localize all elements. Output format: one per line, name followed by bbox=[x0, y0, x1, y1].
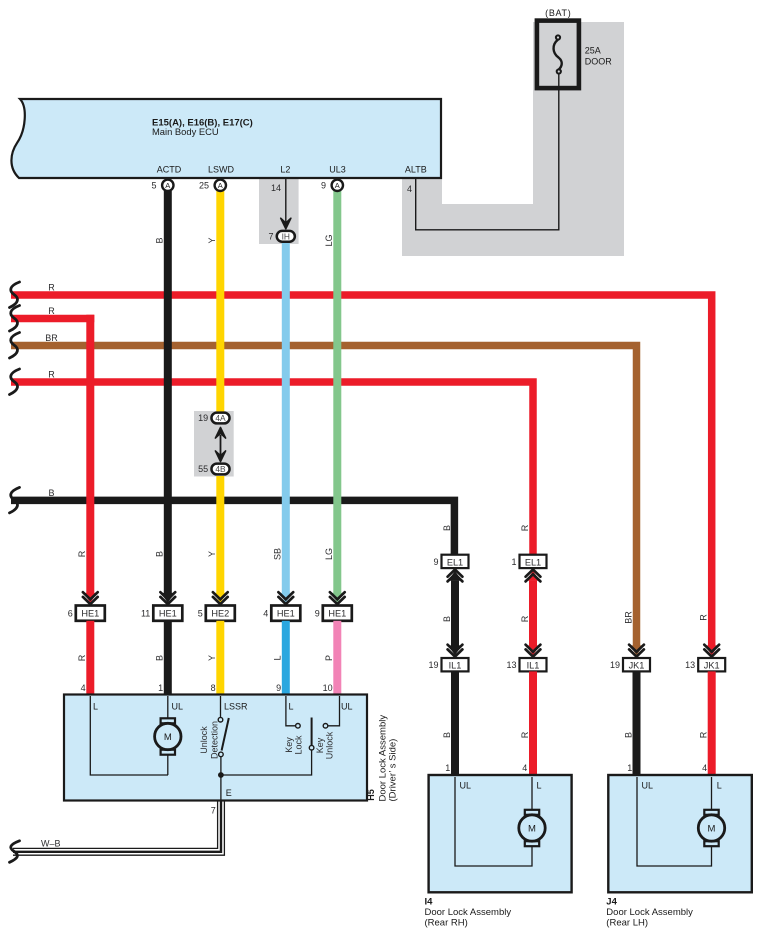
svg-text:9: 9 bbox=[433, 557, 438, 567]
svg-text:E: E bbox=[226, 788, 232, 798]
svg-text:ALTB: ALTB bbox=[405, 165, 427, 175]
svg-text:R: R bbox=[699, 731, 709, 738]
svg-text:4: 4 bbox=[263, 609, 268, 619]
svg-text:Y: Y bbox=[207, 551, 217, 557]
svg-text:UL3: UL3 bbox=[329, 165, 346, 175]
svg-text:J4: J4 bbox=[606, 897, 617, 908]
svg-text:L: L bbox=[289, 702, 294, 712]
svg-text:IH: IH bbox=[282, 231, 290, 241]
svg-text:9: 9 bbox=[276, 683, 281, 693]
svg-text:4: 4 bbox=[407, 184, 412, 194]
svg-text:1: 1 bbox=[627, 763, 632, 773]
svg-text:DOOR: DOOR bbox=[585, 56, 613, 66]
svg-text:19: 19 bbox=[428, 660, 438, 670]
svg-text:L: L bbox=[537, 781, 542, 791]
svg-text:M: M bbox=[164, 732, 172, 743]
svg-text:UL: UL bbox=[172, 702, 184, 712]
svg-text:4: 4 bbox=[81, 683, 86, 693]
svg-text:LG: LG bbox=[324, 234, 334, 246]
svg-text:25: 25 bbox=[199, 181, 209, 191]
svg-text:R: R bbox=[77, 550, 87, 557]
svg-text:B: B bbox=[442, 525, 452, 531]
svg-text:UL: UL bbox=[460, 781, 472, 791]
svg-text:10: 10 bbox=[323, 683, 333, 693]
svg-text:4: 4 bbox=[522, 763, 527, 773]
svg-text:13: 13 bbox=[685, 660, 695, 670]
svg-text:55: 55 bbox=[198, 464, 208, 474]
svg-text:8: 8 bbox=[211, 683, 216, 693]
svg-text:Door Lock Assembly: Door Lock Assembly bbox=[606, 907, 693, 918]
svg-text:R: R bbox=[520, 615, 530, 622]
svg-text:R: R bbox=[699, 614, 709, 621]
svg-text:B: B bbox=[155, 655, 165, 661]
svg-text:9: 9 bbox=[321, 181, 326, 191]
svg-text:M: M bbox=[708, 823, 716, 834]
svg-text:(Driver’ s Side): (Driver’ s Side) bbox=[388, 739, 399, 802]
svg-text:14: 14 bbox=[271, 183, 281, 193]
svg-text:B: B bbox=[155, 237, 165, 243]
svg-text:HE2: HE2 bbox=[211, 609, 229, 619]
svg-text:1: 1 bbox=[158, 683, 163, 693]
svg-text:Y: Y bbox=[207, 237, 217, 243]
svg-text:HE1: HE1 bbox=[81, 609, 99, 619]
svg-text:JK1: JK1 bbox=[629, 661, 645, 671]
svg-text:Key: Key bbox=[284, 737, 294, 753]
svg-text:R: R bbox=[48, 283, 55, 293]
svg-text:1: 1 bbox=[511, 557, 516, 567]
svg-text:5: 5 bbox=[198, 609, 203, 619]
svg-text:LG: LG bbox=[324, 548, 334, 560]
svg-text:HE1: HE1 bbox=[159, 609, 177, 619]
svg-text:A: A bbox=[218, 181, 223, 190]
svg-text:HE1: HE1 bbox=[277, 609, 295, 619]
svg-text:A: A bbox=[165, 181, 170, 190]
svg-text:B: B bbox=[442, 616, 452, 622]
svg-text:9: 9 bbox=[315, 609, 320, 619]
svg-text:25A: 25A bbox=[585, 45, 601, 55]
svg-text:6: 6 bbox=[68, 609, 73, 619]
svg-text:Y: Y bbox=[207, 655, 217, 661]
svg-text:R: R bbox=[520, 524, 530, 531]
svg-text:(Rear RH): (Rear RH) bbox=[425, 918, 468, 929]
svg-text:Key: Key bbox=[315, 737, 325, 753]
svg-text:4B: 4B bbox=[215, 464, 226, 474]
svg-text:(Rear LH): (Rear LH) bbox=[606, 918, 648, 929]
svg-text:7: 7 bbox=[268, 232, 273, 242]
svg-text:HE1: HE1 bbox=[328, 609, 346, 619]
svg-text:7: 7 bbox=[211, 806, 216, 816]
svg-text:P: P bbox=[324, 655, 334, 661]
svg-text:W–B: W–B bbox=[41, 839, 61, 849]
svg-text:(BAT): (BAT) bbox=[545, 8, 571, 18]
svg-text:L: L bbox=[273, 655, 283, 660]
svg-text:I4: I4 bbox=[425, 897, 434, 908]
svg-text:19: 19 bbox=[198, 413, 208, 423]
svg-text:IL1: IL1 bbox=[449, 661, 462, 671]
svg-text:M: M bbox=[528, 823, 536, 834]
svg-text:R: R bbox=[77, 654, 87, 661]
svg-text:UL: UL bbox=[642, 781, 654, 791]
svg-text:19: 19 bbox=[610, 660, 620, 670]
svg-text:13: 13 bbox=[506, 660, 516, 670]
svg-text:EL1: EL1 bbox=[525, 557, 541, 567]
svg-text:BR: BR bbox=[623, 611, 633, 624]
svg-text:SB: SB bbox=[273, 548, 283, 560]
svg-text:Door Lock Assembly: Door Lock Assembly bbox=[425, 907, 512, 918]
svg-text:H5: H5 bbox=[366, 789, 376, 801]
svg-text:Unlock: Unlock bbox=[325, 731, 335, 759]
svg-text:LSWD: LSWD bbox=[208, 165, 235, 175]
svg-text:4: 4 bbox=[702, 763, 707, 773]
svg-text:EL1: EL1 bbox=[447, 557, 463, 567]
svg-text:4A: 4A bbox=[215, 413, 226, 423]
svg-text:BR: BR bbox=[45, 333, 58, 343]
svg-text:IL1: IL1 bbox=[527, 661, 540, 671]
svg-text:Lock: Lock bbox=[294, 735, 304, 755]
svg-text:L2: L2 bbox=[280, 165, 290, 175]
svg-text:L: L bbox=[93, 702, 98, 712]
svg-text:5: 5 bbox=[151, 181, 156, 191]
svg-text:R: R bbox=[520, 731, 530, 738]
svg-text:A: A bbox=[335, 181, 340, 190]
svg-text:UL: UL bbox=[341, 702, 353, 712]
svg-text:B: B bbox=[623, 732, 633, 738]
svg-text:1: 1 bbox=[445, 763, 450, 773]
svg-text:ACTD: ACTD bbox=[157, 165, 182, 175]
svg-text:B: B bbox=[442, 732, 452, 738]
svg-text:11: 11 bbox=[141, 609, 150, 619]
svg-text:Main Body ECU: Main Body ECU bbox=[152, 126, 219, 137]
svg-text:JK1: JK1 bbox=[704, 661, 720, 671]
svg-text:Detection: Detection bbox=[209, 721, 219, 759]
svg-text:R: R bbox=[48, 306, 55, 316]
svg-text:L: L bbox=[717, 781, 722, 791]
svg-text:LSSR: LSSR bbox=[224, 702, 248, 712]
svg-text:B: B bbox=[48, 488, 54, 498]
svg-text:B: B bbox=[155, 551, 165, 557]
svg-text:R: R bbox=[48, 370, 55, 380]
svg-text:Unlock: Unlock bbox=[199, 726, 209, 754]
